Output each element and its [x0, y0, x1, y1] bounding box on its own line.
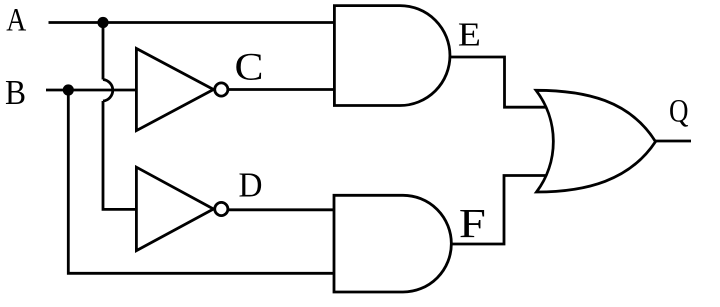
svg-text:Q: Q — [669, 94, 689, 130]
wire hop (A-branch crossing over wire B) — [103, 80, 113, 102]
wire A-branch vertical upper segment — [102, 23, 105, 80]
wire A-branch vertical lower segment to inverter U2 input — [103, 101, 136, 209]
wire A (input A to AND gate top input) — [49, 21, 335, 24]
wire B-branch (down and right to AND gate 2 bottom input) — [68, 90, 334, 273]
inverter U2 triangle — [136, 167, 213, 250]
svg-text:F: F — [459, 201, 486, 246]
svg-text:D: D — [239, 165, 263, 204]
AND gate 2 — [334, 195, 451, 292]
svg-text:B: B — [5, 72, 26, 112]
inverter U1 output bubble — [215, 83, 228, 96]
wire F (AND gate 2 output to OR gate bottom input) — [451, 176, 547, 245]
svg-text:A: A — [6, 3, 26, 39]
wire Q (OR gate output) — [656, 140, 692, 143]
svg-text:C: C — [235, 46, 264, 89]
wire B (input B to inverter U1 input) — [46, 89, 136, 92]
inverter U1 triangle — [136, 49, 213, 131]
junction dot on wire A — [97, 17, 108, 28]
wire C (inverter U1 output to AND gate 1 bottom input) — [229, 88, 335, 91]
AND gate 1 — [334, 6, 450, 106]
junction dot on wire B — [63, 84, 74, 95]
svg-text:E: E — [458, 17, 481, 54]
OR gate — [536, 90, 656, 192]
inverter U2 output bubble — [215, 202, 228, 215]
wire D (inverter U2 output to AND gate 2 top input) — [229, 208, 335, 211]
wire E (AND gate 1 output to OR gate top input) — [450, 57, 547, 107]
